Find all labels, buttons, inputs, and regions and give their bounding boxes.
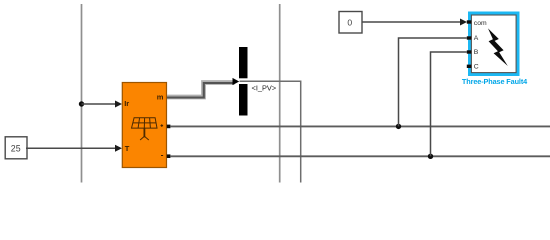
node: junction on + net to phase A (396, 124, 401, 129)
port nub: fault com (467, 20, 472, 23)
svg-text:C: C (474, 63, 479, 70)
wire: T signal from constant 25 to PV array (26, 145, 122, 152)
port nub: fault C (467, 65, 472, 68)
port nub: PV + output (167, 125, 171, 129)
svg-text:T: T (125, 144, 130, 153)
solar panel icon inside PV array (132, 118, 158, 140)
wire: m measurement bus (thick) from PV to bus selector (167, 78, 239, 98)
svg-text:Three-Phase Fault4: Three-Phase Fault4 (462, 77, 528, 86)
svg-text:<I_PV>: <I_PV> (252, 83, 277, 92)
label Three-Phase Fault4 (462, 77, 528, 86)
port nub: fault B (467, 50, 472, 53)
wire: PV - net (lower horizontal) (170, 155, 550, 157)
wire: phase A branch to fault block (399, 38, 467, 126)
three-phase fault block (selected, cyan highlight) (468, 12, 520, 77)
svg-text:25: 25 (11, 143, 21, 153)
svg-text:A: A (474, 35, 479, 42)
node: junction on - net to phase B (428, 154, 433, 159)
wire: long vertical net middle (279, 4, 281, 183)
wire: phase B branch to fault block (431, 52, 467, 156)
wire: I_PV selected signal from bus selector (240, 81, 301, 182)
constant block 25 (5, 137, 27, 159)
port nub: PV - output (167, 154, 171, 158)
label <I_PV> (252, 83, 277, 92)
wire: com signal from constant 0 to fault block (362, 19, 467, 26)
svg-text:Ir: Ir (124, 99, 129, 108)
port nub: fault A (467, 36, 472, 39)
bus selector bar (239, 47, 248, 116)
PV array block U1 (122, 83, 166, 168)
svg-text:0: 0 (347, 18, 352, 28)
wire: Ir signal into PV array (82, 101, 123, 108)
wire: long vertical net left (81, 4, 83, 183)
lightning bolt icon (488, 28, 508, 66)
wire: PV + net (upper horizontal) (170, 125, 550, 127)
node: junction on Ir wire (79, 101, 84, 106)
constant block 0 (339, 12, 362, 34)
svg-text:m: m (157, 92, 164, 101)
svg-text:com: com (474, 20, 487, 27)
svg-text:B: B (474, 49, 479, 56)
